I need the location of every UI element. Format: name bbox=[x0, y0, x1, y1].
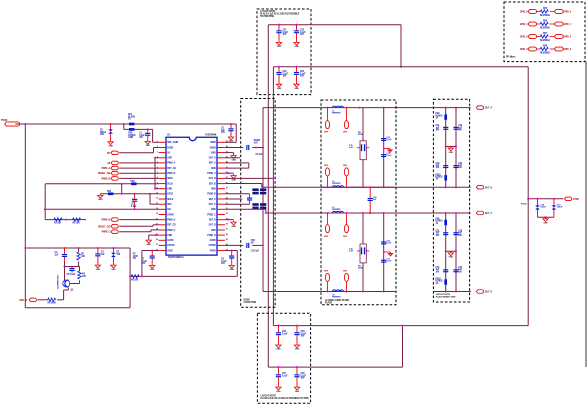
svg-text:GND: GND bbox=[111, 269, 116, 271]
svg-text:DVDD: DVDD bbox=[210, 147, 216, 149]
svg-text:16V: 16V bbox=[458, 167, 462, 169]
svg-text:R1 10K: R1 10K bbox=[54, 223, 62, 225]
svg-text:GND: GND bbox=[277, 46, 282, 48]
svg-text:16V: 16V bbox=[301, 378, 305, 380]
svg-text:PU: PU bbox=[107, 152, 111, 155]
svg-text:OUT_B: OUT_B bbox=[209, 178, 217, 180]
svg-text:AVSS: AVSS bbox=[167, 249, 173, 252]
svg-text:21: 21 bbox=[156, 244, 158, 246]
svg-text:GND: GND bbox=[229, 141, 234, 143]
svg-text:GPIO_1: GPIO_1 bbox=[520, 24, 528, 26]
svg-text:GND: GND bbox=[231, 179, 236, 181]
svg-text:18A: 18A bbox=[100, 133, 104, 136]
svg-text:GND: GND bbox=[211, 152, 216, 154]
svg-text:3: 3 bbox=[157, 151, 158, 153]
svg-text:SPK: SPK bbox=[324, 271, 329, 273]
svg-text:BST_B: BST_B bbox=[209, 183, 216, 185]
svg-text:SDA: SDA bbox=[167, 203, 172, 206]
svg-text:0.1uF: 0.1uF bbox=[282, 333, 288, 335]
svg-text:RF filters: RF filters bbox=[506, 56, 516, 59]
svg-text:SCL: SCL bbox=[167, 209, 172, 211]
svg-text:CPVSS: CPVSS bbox=[167, 245, 175, 247]
svg-text:GND: GND bbox=[295, 349, 300, 351]
svg-text:PVDD: PVDD bbox=[573, 199, 579, 201]
svg-text:FERRITE: FERRITE bbox=[332, 297, 341, 299]
svg-text:GND: GND bbox=[543, 223, 548, 225]
svg-text:GND: GND bbox=[276, 391, 281, 393]
svg-text:10K: 10K bbox=[81, 256, 85, 258]
svg-text:PVDD_A: PVDD_A bbox=[207, 172, 216, 175]
svg-text:470K: 470K bbox=[358, 267, 363, 270]
svg-text:GND: GND bbox=[449, 257, 454, 259]
svg-text:20: 20 bbox=[156, 239, 158, 241]
svg-text:SPK: SPK bbox=[324, 132, 329, 134]
svg-text:FERRITE: FERRITE bbox=[332, 209, 341, 211]
svg-text:GVDD: GVDD bbox=[167, 240, 174, 242]
svg-text:100uF: 100uF bbox=[540, 207, 547, 209]
svg-text:OUT_C: OUT_C bbox=[485, 213, 493, 215]
svg-text:1A: 1A bbox=[128, 118, 131, 121]
svg-text:FERRITE: FERRITE bbox=[332, 113, 341, 115]
svg-text:GND: GND bbox=[449, 152, 454, 154]
svg-text:GPIO_0: GPIO_0 bbox=[563, 11, 571, 13]
svg-text:SDIN: SDIN bbox=[167, 178, 172, 180]
svg-text:GND: GND bbox=[211, 209, 216, 211]
svg-text:PWM_C: PWM_C bbox=[102, 231, 111, 234]
svg-text:Q1 MMBT3904: Q1 MMBT3904 bbox=[57, 274, 60, 289]
svg-text:OUT_B: OUT_B bbox=[485, 187, 493, 189]
svg-text:26: 26 bbox=[226, 234, 228, 236]
svg-text:16V: 16V bbox=[300, 34, 304, 36]
svg-text:AVDD: AVDD bbox=[210, 141, 216, 144]
svg-text:CPVDD: CPVDD bbox=[208, 245, 216, 247]
svg-text:16V: 16V bbox=[283, 76, 287, 78]
svg-text:PWM_D: PWM_D bbox=[167, 220, 175, 222]
svg-text:SPK: SPK bbox=[343, 132, 348, 134]
svg-text:OUT_A: OUT_A bbox=[485, 107, 493, 110]
svg-text:5%: 5% bbox=[133, 258, 136, 260]
svg-text:TAS5754MDCA: TAS5754MDCA bbox=[168, 256, 184, 259]
svg-text:GND: GND bbox=[276, 349, 281, 351]
svg-text:16V: 16V bbox=[300, 76, 304, 78]
svg-text:C9 1uF: C9 1uF bbox=[256, 154, 264, 156]
svg-text:GPIO_1: GPIO_1 bbox=[563, 24, 571, 26]
svg-text:16V: 16V bbox=[458, 130, 462, 132]
svg-text:GND: GND bbox=[295, 391, 300, 393]
svg-text:44: 44 bbox=[226, 140, 228, 143]
svg-text:16V: 16V bbox=[139, 137, 143, 139]
svg-text:BST_A: BST_A bbox=[209, 162, 216, 165]
svg-text:VDD_IN: VDD_IN bbox=[19, 300, 27, 302]
svg-text:100uF: 100uF bbox=[557, 207, 564, 209]
svg-text:PLACE 0.1uF AS CLOSE AS POSSIB: PLACE 0.1uF AS CLOSE AS POSSIBLE TO PINS bbox=[261, 397, 310, 400]
svg-text:GND: GND bbox=[108, 146, 113, 148]
svg-text:R2 10K: R2 10K bbox=[73, 223, 81, 225]
svg-text:PWM_A: PWM_A bbox=[167, 162, 175, 165]
svg-text:PWM_D: PWM_D bbox=[102, 219, 111, 222]
svg-text:SPK: SPK bbox=[343, 271, 348, 273]
svg-text:GND: GND bbox=[147, 244, 152, 246]
svg-text:C5 0.1uF: C5 0.1uF bbox=[67, 274, 76, 276]
svg-text:0.1uF: 0.1uF bbox=[386, 139, 392, 141]
svg-text:16V: 16V bbox=[436, 235, 440, 237]
svg-text:16V: 16V bbox=[221, 132, 225, 134]
svg-text:GPIO_3: GPIO_3 bbox=[520, 49, 528, 51]
svg-text:OUT_C: OUT_C bbox=[209, 204, 217, 206]
svg-text:TAS5754M: TAS5754M bbox=[205, 134, 216, 137]
svg-text:GPIO_3: GPIO_3 bbox=[563, 49, 571, 51]
svg-text:GND: GND bbox=[96, 269, 101, 271]
svg-text:GPIO_2: GPIO_2 bbox=[563, 36, 571, 38]
svg-text:GPIO_0: GPIO_0 bbox=[520, 11, 528, 13]
svg-text:SPK_GAIN: SPK_GAIN bbox=[167, 141, 178, 144]
svg-text:SPK: SPK bbox=[324, 165, 329, 167]
svg-text:MCLK: MCLK bbox=[167, 199, 174, 201]
svg-text:CAPACITOR: CAPACITOR bbox=[244, 301, 257, 304]
svg-text:30: 30 bbox=[226, 213, 228, 215]
svg-text:GND: GND bbox=[150, 269, 155, 271]
svg-text:0.1uF: 0.1uF bbox=[131, 206, 137, 208]
svg-text:16V: 16V bbox=[458, 235, 462, 237]
svg-text:GVDD: GVDD bbox=[210, 240, 217, 242]
svg-text:SPK: SPK bbox=[343, 236, 348, 238]
svg-text:GND: GND bbox=[294, 88, 299, 90]
svg-text:16V: 16V bbox=[436, 271, 440, 273]
svg-text:C10 1uF: C10 1uF bbox=[251, 250, 260, 252]
svg-text:SPK: SPK bbox=[324, 236, 329, 238]
svg-text:10K: 10K bbox=[82, 276, 86, 278]
svg-text:GND: GND bbox=[146, 145, 151, 147]
svg-text:R5 100K: R5 100K bbox=[48, 303, 57, 305]
svg-text:GND: GND bbox=[128, 137, 133, 139]
svg-text:16V: 16V bbox=[142, 263, 146, 265]
svg-text:PVDD_C: PVDD_C bbox=[207, 214, 216, 216]
svg-text:BST_D: BST_D bbox=[209, 220, 216, 222]
svg-text:0.1uF: 0.1uF bbox=[386, 243, 392, 245]
svg-text:GND: GND bbox=[167, 235, 172, 237]
svg-text:0.1uF: 0.1uF bbox=[386, 155, 392, 157]
svg-text:25: 25 bbox=[226, 239, 228, 241]
svg-text:GND: GND bbox=[167, 189, 172, 191]
svg-text:RST_AB: RST_AB bbox=[167, 167, 176, 170]
svg-text:PWM_A: PWM_A bbox=[102, 167, 111, 170]
svg-text:35: 35 bbox=[226, 187, 228, 189]
svg-text:GND: GND bbox=[294, 46, 299, 48]
svg-text:RST_CD: RST_CD bbox=[167, 225, 176, 227]
svg-text:BLM18AG: BLM18AG bbox=[540, 27, 551, 30]
svg-text:FERRITE: FERRITE bbox=[332, 183, 341, 185]
svg-text:12: 12 bbox=[156, 198, 158, 200]
svg-text:16V: 16V bbox=[436, 167, 440, 169]
svg-text:PVDD: PVDD bbox=[1, 119, 8, 122]
svg-text:TO PWR PINS: TO PWR PINS bbox=[260, 16, 275, 18]
svg-text:PWM_C: PWM_C bbox=[167, 230, 175, 232]
svg-text:OUT_D: OUT_D bbox=[485, 292, 493, 294]
svg-text:DVDD: DVDD bbox=[167, 147, 173, 149]
svg-text:PVDD: PVDD bbox=[210, 250, 216, 252]
svg-text:ADR: ADR bbox=[167, 157, 172, 160]
svg-text:R6 10K: R6 10K bbox=[131, 280, 139, 282]
svg-text:GND: GND bbox=[98, 199, 103, 201]
svg-text:GND: GND bbox=[230, 269, 235, 271]
svg-text:0.1uF: 0.1uF bbox=[282, 375, 288, 377]
svg-text:GND: GND bbox=[211, 189, 216, 191]
svg-text:GND: GND bbox=[231, 226, 236, 228]
svg-text:OUT_D: OUT_D bbox=[209, 225, 217, 227]
svg-text:PVDD_D: PVDD_D bbox=[207, 235, 216, 237]
svg-text:BLM18AG: BLM18AG bbox=[540, 52, 551, 55]
svg-text:0.1uF: 0.1uF bbox=[386, 261, 392, 263]
svg-text:PVDD: PVDD bbox=[521, 204, 527, 206]
svg-text:FILTER: FILTER bbox=[325, 302, 333, 304]
svg-text:16V: 16V bbox=[221, 263, 225, 265]
svg-text:28: 28 bbox=[226, 224, 228, 226]
svg-text:GND: GND bbox=[231, 159, 236, 161]
svg-text:OUT_A: OUT_A bbox=[209, 157, 217, 160]
svg-text:16V: 16V bbox=[458, 271, 462, 273]
svg-text:LRCK: LRCK bbox=[167, 194, 173, 196]
svg-text:RESET_AB: RESET_AB bbox=[98, 172, 110, 175]
svg-text:BLM18AG: BLM18AG bbox=[540, 14, 551, 17]
svg-text:470K: 470K bbox=[358, 133, 363, 136]
svg-text:PWM_B: PWM_B bbox=[167, 173, 175, 175]
svg-text:PVDD_B: PVDD_B bbox=[207, 194, 216, 196]
svg-text:16V: 16V bbox=[436, 130, 440, 132]
svg-text:GND: GND bbox=[277, 88, 282, 90]
svg-text:SPK: SPK bbox=[343, 165, 348, 167]
svg-text:BST_C: BST_C bbox=[209, 199, 216, 201]
svg-text:27: 27 bbox=[226, 229, 228, 231]
svg-text:PWM_B: PWM_B bbox=[102, 177, 111, 180]
svg-text:PLACE NEAR CONN: PLACE NEAR CONN bbox=[436, 295, 456, 298]
svg-text:SCLK: SCLK bbox=[167, 183, 173, 185]
svg-text:16V: 16V bbox=[301, 336, 305, 338]
svg-text:GND: GND bbox=[211, 168, 216, 170]
svg-text:BLM18AG: BLM18AG bbox=[540, 39, 551, 42]
svg-text:GPIO0: GPIO0 bbox=[167, 214, 174, 216]
svg-text:GND: GND bbox=[211, 230, 216, 232]
svg-text:GPIO_2: GPIO_2 bbox=[520, 36, 528, 38]
svg-text:16V: 16V bbox=[283, 34, 287, 36]
svg-text:RESET_CD: RESET_CD bbox=[98, 225, 110, 228]
svg-text:15: 15 bbox=[156, 213, 158, 215]
